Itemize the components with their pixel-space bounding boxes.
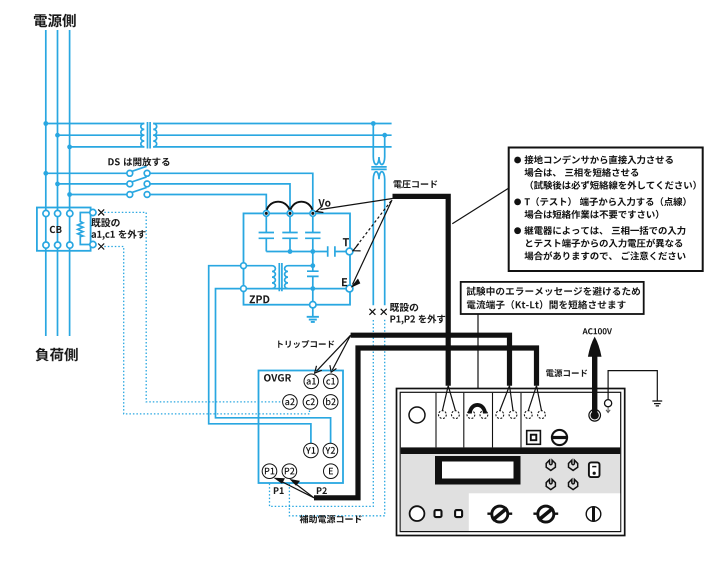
transformer VT primary winding bbox=[373, 124, 384, 165]
wire capacitor bus bbox=[266, 251, 327, 253]
OVGR terminal Y1 bbox=[304, 443, 319, 458]
transformer T1 core bbox=[148, 122, 151, 149]
disconnect switch DS3 bbox=[127, 188, 150, 198]
terminal section divider 4 bbox=[520, 393, 522, 448]
device terminal 1 bbox=[439, 411, 447, 419]
OVGR terminal b2 bbox=[323, 395, 338, 410]
device lower gray panel bbox=[401, 454, 620, 531]
device terminal 7 bbox=[524, 411, 532, 419]
trip cord forks bbox=[500, 386, 513, 411]
wire phase S vertical (source to load) bbox=[57, 30, 59, 336]
wire ZPD winding top-left bbox=[246, 265, 272, 267]
instruction box 1 bbox=[509, 148, 703, 272]
OVGR terminal a2 bbox=[283, 395, 298, 410]
note2 line 1 bbox=[467, 287, 640, 296]
node bus junction 2 bbox=[310, 249, 315, 254]
voltage cord forks bbox=[442, 386, 455, 411]
CB trip coil (resistor zigzag) bbox=[78, 213, 90, 245]
trip lead to terminal a1 (open arrow) bbox=[316, 335, 350, 371]
wire phase T vertical (source to load) bbox=[69, 30, 71, 336]
OVGR terminal P2 bbox=[282, 464, 297, 479]
disconnect switch DS2 bbox=[127, 177, 150, 187]
label 既設のa1c1を外す line2 bbox=[92, 230, 146, 240]
wire T1 secondary line 3 bbox=[153, 146, 391, 148]
LCD display bbox=[435, 456, 521, 485]
label 既設のa1c1を外す line1 bbox=[91, 218, 119, 227]
aux lead to terminal P1 (arrow) bbox=[278, 480, 315, 498]
wire existing P1 (dotted, removed) bbox=[270, 318, 374, 506]
note text line bbox=[531, 181, 696, 190]
Kt-Lt shorting jumper bbox=[470, 405, 485, 414]
terminal section divider 1 bbox=[435, 393, 437, 448]
terminal section divider 3 bbox=[492, 393, 494, 448]
lead to E terminal with arrow bbox=[353, 200, 393, 285]
trip lead to terminal c1 (open arrow) bbox=[332, 335, 350, 370]
CB top terminal 2 bbox=[55, 210, 61, 216]
label 電圧コード (voltage cord) bbox=[394, 180, 438, 188]
ground terminal on panel bbox=[605, 400, 612, 407]
note text line bbox=[514, 155, 673, 164]
test device inner panel bbox=[400, 392, 621, 531]
label 電源側 (source side) bbox=[34, 14, 76, 28]
voltage cord (thick) bbox=[393, 196, 449, 385]
wire phase T to transformer T1 bbox=[70, 146, 145, 148]
toggle switch bbox=[589, 462, 600, 477]
wire ZPD-1 to OVGR Y1 bbox=[209, 266, 311, 444]
ZPD detector box bbox=[244, 213, 351, 304]
device terminal 2 bbox=[452, 411, 460, 419]
terminal E bbox=[346, 285, 353, 292]
wire ZPD bottom bus to E bbox=[246, 288, 346, 290]
transformer VT core bbox=[371, 167, 386, 170]
CB top terminal 1 bbox=[43, 210, 49, 216]
node ZPD input 2 bbox=[287, 211, 293, 217]
wire DS3 to ZPD node 1 bbox=[150, 195, 266, 211]
disconnect switch DS1 bbox=[127, 166, 150, 176]
CB top terminal 3 bbox=[67, 210, 73, 216]
terminal T bbox=[346, 248, 353, 255]
CB terminal c1 bbox=[90, 241, 96, 247]
node junction R-DS bbox=[43, 171, 48, 176]
label Vo bbox=[318, 199, 330, 207]
rotary knob 1 bbox=[487, 506, 512, 522]
earth wire bbox=[608, 371, 657, 401]
transformer VT secondary winding bbox=[373, 172, 384, 306]
aux lead to terminal P2 (arrow) bbox=[293, 482, 315, 498]
X mark removed P1 bbox=[369, 309, 375, 315]
ZPD ground terminal bbox=[310, 302, 316, 308]
test device outer case bbox=[397, 389, 625, 536]
label AC100V bbox=[583, 328, 613, 334]
label 負荷側 (load side) bbox=[36, 348, 78, 362]
panel icon square bbox=[527, 431, 541, 445]
wire phase R to DS1 bbox=[46, 172, 127, 174]
shorting jumper wire arc 1 bbox=[266, 202, 290, 213]
node bus junction 1 bbox=[288, 249, 293, 254]
node ZPD input 1 bbox=[263, 211, 269, 217]
label 既設のP1P2 line1 bbox=[390, 303, 418, 312]
label OVGR bbox=[264, 374, 291, 382]
label 既設のP1P2 line2 bbox=[390, 314, 445, 324]
terminal section divider 2 bbox=[463, 393, 465, 448]
device terminal 3 bbox=[467, 411, 475, 419]
device black band bbox=[401, 447, 620, 454]
node junction S-DS bbox=[55, 182, 60, 187]
trimmer knob 4 bbox=[569, 479, 578, 489]
dashed test lead to T terminal bbox=[356, 201, 392, 248]
note2 line 2 bbox=[467, 300, 626, 309]
label CB bbox=[50, 226, 62, 233]
wire existing a1 (dotted, removed) bbox=[104, 212, 282, 402]
label 補助電源コード (aux power cord) bbox=[300, 515, 362, 523]
wire cap to ground circle bbox=[312, 289, 314, 302]
rotary knob 3 bbox=[586, 507, 601, 522]
wire phase S to DS2 bbox=[58, 183, 127, 185]
trip cord (thick) bbox=[351, 335, 510, 386]
AC power terminal (filled) bbox=[589, 410, 601, 422]
transformer ZT primary winding bbox=[272, 266, 275, 289]
pointer line from box 2 to jumper bbox=[477, 314, 479, 406]
instruction box 2 bbox=[461, 282, 644, 314]
label T bbox=[343, 238, 349, 246]
OVGR terminal P1 bbox=[262, 464, 277, 479]
CB bottom terminal 1 bbox=[43, 242, 49, 248]
label DSは開放する bbox=[108, 157, 169, 166]
note text line bbox=[525, 210, 659, 219]
node junction bottom bus bbox=[310, 286, 315, 291]
node junction VT primary a bbox=[371, 121, 376, 126]
wire phase S to transformer T1 bbox=[58, 134, 145, 136]
wire T1 secondary line 1 bbox=[153, 123, 391, 125]
wire phase T to DS3 bbox=[70, 194, 127, 196]
transformer ZT core bbox=[279, 263, 282, 291]
power button circle bbox=[410, 506, 425, 521]
X mark removed P2 bbox=[381, 309, 387, 315]
lead to Vo node with open arrow bbox=[321, 199, 393, 210]
wire ZPD-2 to OVGR Y2 bbox=[216, 289, 331, 444]
ZPD left terminal 2 bbox=[241, 286, 247, 292]
trimmer knob 3 bbox=[546, 479, 555, 489]
capacitor Cz (ZPD output) bbox=[307, 252, 319, 289]
note text line bbox=[526, 239, 682, 248]
OVGR terminal c1 bbox=[324, 374, 339, 389]
node junction T-DS bbox=[67, 192, 72, 197]
node junction T-feeder bbox=[67, 145, 72, 150]
device terminal 8 bbox=[538, 411, 546, 419]
wire DS2 to ZPD node 2 bbox=[150, 184, 290, 211]
capacitor C2 (grounding capacitor) bbox=[282, 216, 297, 251]
transformer T1 primary winding bbox=[141, 124, 145, 147]
node ZPD input 3 (Vo) bbox=[310, 211, 316, 217]
label トリップコード (trip cord) bbox=[278, 340, 334, 348]
label P2 pointer bbox=[317, 487, 327, 494]
label 電源コード (power cord) bbox=[546, 369, 587, 377]
ground (earth rod) bbox=[652, 401, 662, 406]
trimmer knob 2 bbox=[569, 460, 578, 470]
circuit breaker CB bbox=[37, 208, 91, 251]
rotary knob 2 bbox=[533, 506, 558, 522]
label ZPD bbox=[250, 295, 270, 303]
node junction ZT-cap top bbox=[310, 263, 315, 268]
node junction S-feeder bbox=[55, 133, 60, 138]
capacitor C3 (grounding capacitor) bbox=[305, 216, 320, 251]
panel ground arrow bbox=[606, 408, 610, 413]
X mark removed c1 bbox=[98, 244, 104, 250]
shorting jumper wire arc 2 bbox=[290, 202, 313, 213]
ZPD left terminal 1 bbox=[241, 263, 247, 269]
device terminal 5 bbox=[496, 411, 504, 419]
wire phase R vertical (source to load) bbox=[45, 30, 47, 336]
capacitor C1 (grounding capacitor) bbox=[259, 216, 274, 251]
power cord AC100V arrow bbox=[592, 356, 597, 412]
auxiliary power cord (thick) bbox=[314, 348, 537, 498]
CB bottom terminal 3 bbox=[67, 242, 73, 248]
device white subpanel bbox=[469, 493, 620, 531]
note text line bbox=[525, 251, 686, 260]
wire existing P2 (dotted, removed) bbox=[289, 318, 384, 515]
node junction VT primary b bbox=[382, 133, 387, 138]
transformer ZT secondary winding bbox=[285, 266, 288, 289]
wire existing c1 (dotted, removed) bbox=[104, 247, 309, 414]
device indicator circle bbox=[409, 407, 425, 423]
relay OVGR box bbox=[259, 371, 344, 484]
wire T1 secondary line 2 bbox=[153, 134, 391, 136]
transformer T1 secondary winding bbox=[153, 124, 157, 147]
X mark removed a1 bbox=[98, 209, 104, 215]
OVGR terminal E bbox=[324, 464, 339, 479]
OVGR terminal a1 bbox=[304, 374, 319, 389]
panel icon circle-bar bbox=[552, 430, 567, 445]
device terminal 4 bbox=[480, 411, 488, 419]
wire phase R to transformer T1 bbox=[46, 123, 145, 125]
capacitor Ct (test coupling) bbox=[328, 246, 346, 256]
callout line from box 1 bbox=[452, 188, 508, 224]
ground (ZPD earth) bbox=[312, 308, 314, 317]
CB terminal a1 bbox=[90, 209, 96, 215]
trimmer knob 1 bbox=[546, 460, 555, 470]
small button 1 bbox=[435, 510, 442, 517]
wire ZT secondary top to cap bbox=[288, 265, 313, 267]
aux cord forks bbox=[528, 386, 541, 411]
node junction R-feeder bbox=[43, 121, 48, 126]
note text line bbox=[514, 226, 685, 235]
note text line bbox=[514, 197, 686, 206]
OVGR terminal c2 bbox=[303, 395, 318, 410]
wire DS1 to ZPD node 3 bbox=[150, 173, 313, 210]
device terminal 6 bbox=[509, 411, 517, 419]
small button 2 bbox=[455, 510, 462, 517]
note text line bbox=[525, 168, 639, 177]
label E bbox=[342, 278, 347, 286]
CB bottom terminal 2 bbox=[55, 242, 61, 248]
OVGR terminal Y2 bbox=[323, 443, 338, 458]
label P1 pointer bbox=[274, 487, 284, 494]
